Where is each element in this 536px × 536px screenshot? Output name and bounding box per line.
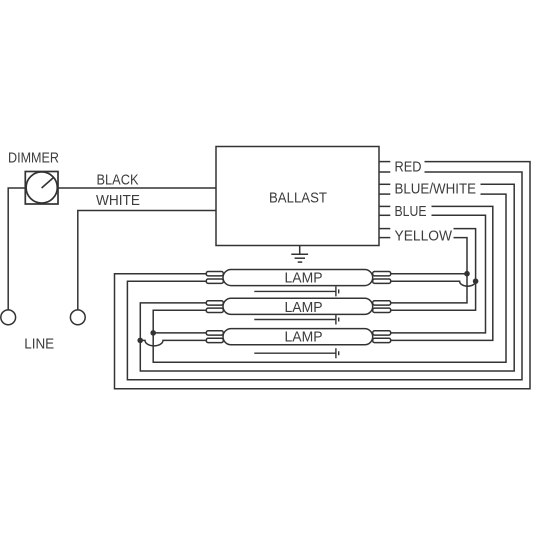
svg-text:BALLAST: BALLAST bbox=[269, 190, 327, 206]
svg-text:LAMP: LAMP bbox=[285, 330, 323, 346]
svg-text:BLUE: BLUE bbox=[395, 204, 427, 220]
svg-text:DIMMER: DIMMER bbox=[8, 150, 59, 166]
svg-text:WHITE: WHITE bbox=[96, 193, 140, 209]
svg-text:BLACK: BLACK bbox=[97, 172, 139, 188]
svg-text:YELLOW: YELLOW bbox=[395, 228, 453, 244]
svg-text:LINE: LINE bbox=[24, 335, 54, 352]
svg-text:RED: RED bbox=[395, 160, 422, 176]
svg-text:BLUE/WHITE: BLUE/WHITE bbox=[395, 182, 477, 198]
svg-text:LAMP: LAMP bbox=[285, 271, 323, 287]
svg-text:LAMP: LAMP bbox=[285, 300, 323, 316]
